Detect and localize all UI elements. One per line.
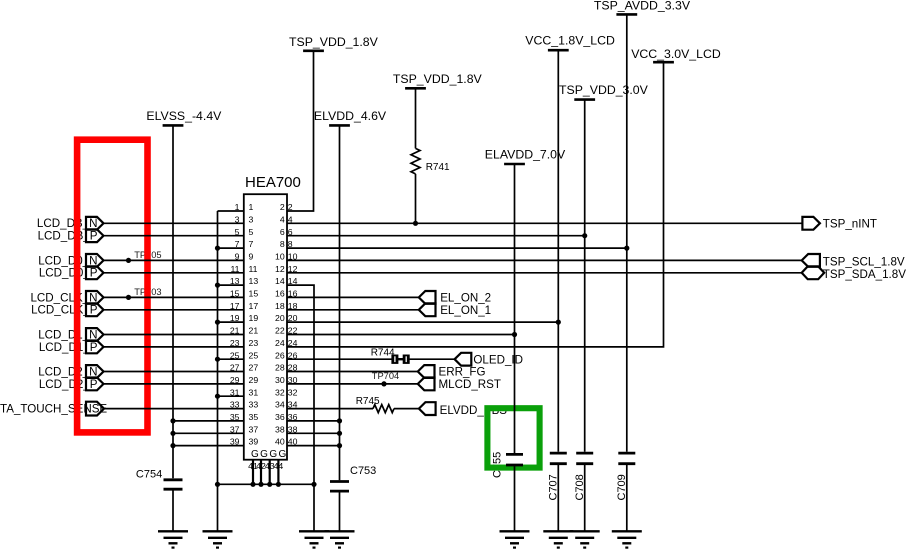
- svg-text:34: 34: [275, 400, 285, 410]
- wire TSP_AVDD_3.3V vertical: [626, 14, 628, 451]
- ground: [203, 531, 233, 548]
- svg-text:ELVSS_-4.4V: ELVSS_-4.4V: [146, 109, 222, 123]
- wire pin 38 stub to ELVDD: [287, 432, 340, 434]
- svg-text:20: 20: [275, 313, 285, 323]
- port TA_TOUCH_SENSE: [86, 402, 104, 416]
- port LCD_D1_N: [86, 328, 104, 341]
- junction pin 36 / ELVDD: [337, 418, 342, 423]
- junction G pin 44 / rail: [276, 482, 281, 487]
- wire pin 14 to ground: [287, 285, 314, 484]
- wire TA_TOUCH_SENSE port to pin 33: [104, 408, 244, 410]
- junction ground bus / rail: [215, 482, 220, 487]
- junction pin 19 / ground bus: [215, 320, 220, 325]
- junction G pin 43 / rail: [267, 482, 272, 487]
- wire TSP_VDD_1.8V riser to R741: [415, 88, 417, 148]
- junction rail / right ground: [311, 482, 316, 487]
- svg-text:TSP_AVDD_3.3V: TSP_AVDD_3.3V: [594, 0, 691, 13]
- svg-text:C753: C753: [350, 465, 376, 477]
- svg-text:30: 30: [275, 375, 285, 385]
- power symbol TSP_VDD_1.8V: [393, 72, 483, 88]
- svg-text:39: 39: [249, 437, 259, 447]
- svg-text:TSP_VDD_1.8V: TSP_VDD_1.8V: [289, 35, 379, 49]
- capacitor C753: [330, 465, 376, 491]
- svg-text:C708: C708: [574, 474, 586, 500]
- svg-text:LCD_D2_P: LCD_D2_P: [39, 378, 98, 391]
- ground: [158, 531, 188, 548]
- port LCD_CLK_P: [86, 303, 104, 316]
- svg-text:C709: C709: [616, 474, 628, 500]
- svg-text:VCC_1.8V_LCD: VCC_1.8V_LCD: [525, 34, 615, 48]
- wire TSP_VDD_3.0V vertical: [584, 100, 586, 452]
- port EL_ON_1: [419, 303, 491, 317]
- wire pin 10 to TSP_SCL_1.8V: [287, 259, 802, 261]
- junction pin 31 / ground bus: [215, 394, 220, 399]
- wire C754 to ground: [172, 490, 174, 531]
- port LCD_DB_P: [86, 229, 104, 242]
- capacitor C707: [548, 453, 567, 500]
- svg-text:TSP_VDD_1.8V: TSP_VDD_1.8V: [393, 72, 483, 86]
- svg-text:36: 36: [275, 412, 285, 422]
- wire pin 24 to VCC_3.0V_LCD: [287, 62, 664, 347]
- svg-text:38: 38: [275, 424, 285, 434]
- resistor R744: [371, 347, 410, 364]
- port LCD_CLK_N: [86, 291, 104, 304]
- junction pin 37 / ELVSS: [170, 431, 175, 436]
- resistor R741: [411, 148, 450, 173]
- port LCD_D0_N: [86, 254, 104, 267]
- svg-text:8: 8: [280, 239, 285, 249]
- svg-text:4: 4: [280, 214, 285, 224]
- wire LCD_D1_N port to pin 21: [104, 334, 244, 336]
- svg-text:LCD_D0_P: LCD_D0_P: [39, 267, 98, 280]
- svg-text:VCC_3.0V_LCD: VCC_3.0V_LCD: [631, 47, 721, 61]
- svg-text:6: 6: [280, 227, 285, 237]
- port TSP_nINT: [802, 217, 877, 231]
- svg-text:ERR_FG: ERR_FG: [439, 366, 486, 379]
- wire pin 2 to TSP_VDD_1.8V: [287, 52, 314, 212]
- svg-text:R741: R741: [426, 162, 450, 173]
- wire bottom ground rail: [218, 483, 315, 485]
- svg-text:OLED_ID: OLED_ID: [473, 353, 523, 366]
- wire G pin 44 stub: [277, 460, 279, 485]
- wire pin 35 stub to ELVSS: [173, 420, 244, 422]
- svg-text:27: 27: [249, 363, 259, 373]
- power symbol VCC_1.8V_LCD: [525, 34, 615, 51]
- capacitor C755: [506, 454, 523, 465]
- wire pin 18 to EL_ON_1: [287, 309, 419, 311]
- svg-text:TSP_nINT: TSP_nINT: [823, 218, 877, 231]
- svg-text:29: 29: [249, 375, 259, 385]
- svg-text:TSP_VDD_3.0V: TSP_VDD_3.0V: [559, 83, 649, 97]
- junction pin 38 / ELVDD: [337, 431, 342, 436]
- power symbol TSP_VDD_3.0V: [559, 83, 649, 100]
- wire LCD_CLK_P port to pin 17: [104, 309, 244, 311]
- junction G pin 42 / rail: [258, 482, 263, 487]
- junction pin6 / TSP_VDD_3.0V: [582, 233, 587, 238]
- wire LCD_D0_N port to pin 9: [104, 259, 244, 261]
- power symbol ELVSS_-4.4V: [146, 109, 222, 125]
- power symbol ELVDD_4.6V: [314, 109, 387, 125]
- svg-text:HEA700: HEA700: [245, 174, 301, 191]
- junction G pin 41 / rail: [250, 482, 255, 487]
- wire pin 40 stub to ELVDD: [287, 445, 340, 447]
- wire pin 39 stub to ELVSS: [173, 445, 244, 447]
- wire pin 4 to TSP_nINT: [287, 222, 802, 224]
- svg-text:ELAVDD_7.0V: ELAVDD_7.0V: [485, 148, 566, 162]
- svg-text:32: 32: [288, 387, 298, 397]
- wire C708 to ground: [584, 465, 586, 531]
- wire pin 19 stub to ground bus: [218, 321, 244, 323]
- svg-text:23: 23: [249, 338, 259, 348]
- testpoint TP703: [126, 295, 131, 300]
- connector HEA700 body: [244, 194, 287, 460]
- svg-text:TSP_SDA_1.8V: TSP_SDA_1.8V: [823, 268, 906, 281]
- svg-text:13: 13: [249, 276, 259, 286]
- wire ELAVDD_7.0V vertical: [514, 164, 516, 453]
- svg-text:35: 35: [249, 412, 259, 422]
- junction pin8 / TSP_AVDD_3.3V: [624, 246, 629, 251]
- power symbol ELAVDD_7.0V: [485, 148, 566, 165]
- wire pin 8 to TSP_AVDD_3.3V: [287, 247, 627, 249]
- wire R744 to OLED_ID: [409, 358, 454, 360]
- port ERR_FG: [418, 365, 486, 379]
- wire R745 to ELVDD_PBS: [394, 408, 419, 410]
- svg-text:1: 1: [249, 202, 254, 212]
- svg-text:LCD_CLK_P: LCD_CLK_P: [31, 304, 98, 317]
- wire G pin 43 stub: [269, 460, 271, 485]
- svg-text:14: 14: [275, 276, 285, 286]
- svg-text:25: 25: [249, 350, 259, 360]
- junction R741 / TSP_nINT net: [413, 221, 418, 226]
- svg-text:R744: R744: [371, 347, 395, 358]
- svg-text:R745: R745: [356, 396, 380, 407]
- junction pin20 / VCC_1.8V_LCD: [556, 320, 561, 325]
- wire pin 13 stub to ground bus: [218, 284, 244, 286]
- junction pin22 / ELAVDD_7.0V: [512, 332, 517, 337]
- wire ELVDD_4.6V vertical: [339, 125, 341, 480]
- svg-text:19: 19: [249, 313, 259, 323]
- junction pin 25 / ground bus: [215, 357, 220, 362]
- wire pin 6 to TSP_VDD_3.0V: [287, 235, 585, 237]
- wire G pin 41 stub: [252, 460, 254, 485]
- wire LCD_D1_P port to pin 23: [104, 346, 244, 348]
- ground: [299, 531, 329, 548]
- wire C707 to ground: [557, 465, 559, 531]
- wire R741 to pin4 net: [415, 174, 417, 223]
- svg-text:18: 18: [275, 301, 285, 311]
- port OLED_ID: [455, 353, 523, 367]
- wire pin 20 to VCC_1.8V_LCD: [287, 321, 558, 323]
- svg-text:32: 32: [275, 387, 285, 397]
- svg-text:ELVDD_4.6V: ELVDD_4.6V: [314, 109, 387, 123]
- power symbol TSP_VDD_1.8V: [289, 35, 379, 51]
- annotation red box: [77, 140, 147, 433]
- svg-text:24: 24: [275, 338, 285, 348]
- svg-text:2: 2: [280, 202, 285, 212]
- svg-text:TP704: TP704: [372, 371, 399, 381]
- port LCD_D2_N: [86, 365, 104, 378]
- svg-text:7: 7: [249, 239, 254, 249]
- svg-text:3: 3: [249, 214, 254, 224]
- svg-text:C754: C754: [136, 469, 162, 481]
- ground: [570, 531, 600, 548]
- wire pin 22 to ELAVDD_7.0V: [287, 334, 515, 336]
- svg-text:C707: C707: [548, 474, 560, 500]
- wire pin 25 stub to ground bus: [218, 358, 244, 360]
- wire pin 26 to R744: [287, 358, 392, 360]
- capacitor C709: [616, 453, 635, 500]
- wire C753 to ground: [339, 492, 341, 531]
- port EL_ON_2: [419, 291, 491, 305]
- port TSP_SCL_1.8V: [802, 254, 905, 269]
- wire pin 16 to EL_ON_2: [287, 296, 419, 298]
- wire pin 12 to TSP_SDA_1.8V: [287, 272, 802, 274]
- svg-text:15: 15: [249, 289, 259, 299]
- svg-text:37: 37: [249, 424, 259, 434]
- power symbol VCC_3.0V_LCD: [631, 47, 721, 62]
- wire pin 7 stub to ground bus: [218, 247, 244, 249]
- port LCD_D1_P: [86, 341, 104, 354]
- wire LCD_DB_P port to pin 5: [104, 235, 244, 237]
- resistor R745: [356, 396, 394, 412]
- power symbol TSP_AVDD_3.3V: [594, 0, 691, 14]
- ground: [543, 531, 573, 548]
- junction pin 7 / ground bus: [215, 246, 220, 251]
- svg-text:EL_ON_1: EL_ON_1: [440, 304, 491, 317]
- svg-text:40: 40: [275, 437, 285, 447]
- wire LCD_D2_N port to pin 27: [104, 371, 244, 373]
- port ELVDD_PBS: [419, 402, 436, 415]
- svg-text:16: 16: [275, 289, 285, 299]
- annotation green box: [487, 408, 539, 467]
- junction pin 40 / ELVDD: [337, 443, 342, 448]
- wire pin 36 stub to ELVDD: [287, 420, 340, 422]
- wire LCD_CLK_N port to pin 15: [104, 296, 244, 298]
- ground: [500, 531, 530, 548]
- ground: [325, 531, 355, 548]
- port LCD_D2_P: [86, 378, 104, 391]
- svg-text:12: 12: [275, 264, 285, 274]
- svg-text:TSP_SCL_1.8V: TSP_SCL_1.8V: [823, 256, 905, 269]
- wire G pin 42 stub: [260, 460, 262, 485]
- svg-text:11: 11: [249, 264, 258, 274]
- capacitor C708: [574, 453, 593, 500]
- svg-text:MLCD_RST: MLCD_RST: [439, 378, 502, 391]
- wire LCD_D0_P port to pin 11: [104, 272, 244, 274]
- wire ground bus vertical: [217, 211, 219, 484]
- svg-text:33: 33: [249, 400, 259, 410]
- capacitor C754: [136, 469, 183, 490]
- svg-text:9: 9: [249, 252, 254, 262]
- svg-text:22: 22: [275, 326, 285, 336]
- junction pin 39 / ELVSS: [170, 443, 175, 448]
- svg-text:GGGG: GGGG: [251, 449, 288, 460]
- svg-text:21: 21: [249, 326, 259, 336]
- ground: [612, 531, 642, 548]
- svg-text:10: 10: [275, 252, 285, 262]
- svg-text:EL_ON_2: EL_ON_2: [440, 292, 491, 305]
- svg-text:LCD_DB_P: LCD_DB_P: [38, 230, 98, 243]
- wire C709 to ground: [626, 465, 628, 531]
- wire pin 30 to MLCD_RST: [287, 383, 418, 385]
- testpoint TP705: [126, 258, 131, 263]
- svg-text:5: 5: [249, 227, 254, 237]
- junction pin 35 / ELVSS: [170, 418, 175, 423]
- svg-text:TA_TOUCH_SENSE: TA_TOUCH_SENSE: [0, 403, 107, 416]
- svg-text:26: 26: [275, 350, 285, 360]
- wire pin 28 to ERR_FG: [287, 371, 418, 373]
- wire LCD_DB_N port to pin 3: [104, 222, 244, 224]
- wire C755 to ground: [514, 466, 516, 531]
- svg-text:17: 17: [249, 301, 259, 311]
- wire pin 31 stub to ground bus: [218, 395, 244, 397]
- wire pin 37 stub to ELVSS: [173, 432, 244, 434]
- svg-text:LCD_D1_P: LCD_D1_P: [39, 341, 98, 354]
- wire LCD_D2_P port to pin 29: [104, 383, 244, 385]
- wire ELVSS_-4.4V vertical: [172, 125, 174, 478]
- junction pin 13 / ground bus: [215, 283, 220, 288]
- wire ground bus to ground symbol: [217, 484, 219, 531]
- wire rail to right ground symbol: [313, 484, 315, 531]
- svg-text:28: 28: [275, 363, 285, 373]
- port MLCD_RST: [418, 378, 501, 392]
- testpoint TP704: [381, 381, 386, 386]
- port TSP_SDA_1.8V: [802, 266, 906, 281]
- wire VCC_1.8V_LCD vertical: [557, 50, 559, 452]
- wire pin 34 to R745: [287, 408, 373, 410]
- svg-text:31: 31: [249, 387, 259, 397]
- wire pin 1 stub: [218, 210, 244, 212]
- port LCD_D0_P: [86, 266, 104, 279]
- port LCD_DB_N: [86, 217, 104, 230]
